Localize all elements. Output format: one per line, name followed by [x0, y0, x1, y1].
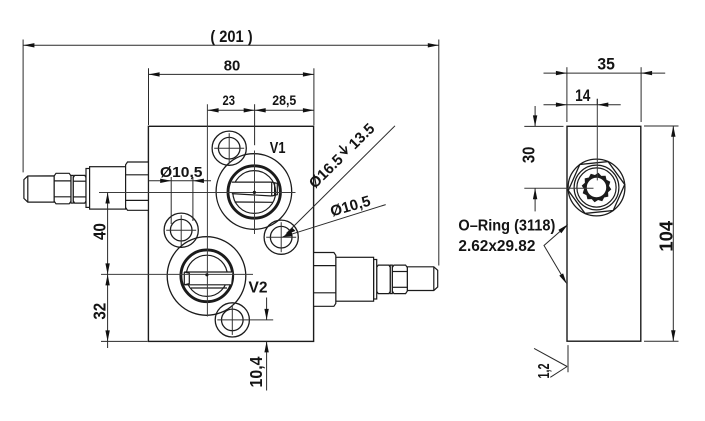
svg-text:O–Ring (3118): O–Ring (3118) — [458, 218, 555, 235]
dimension 10,4 — [266, 298, 268, 391]
chamfer mark 1,2 — [534, 345, 568, 377]
svg-text:40: 40 — [89, 223, 109, 240]
centerline side-view hole horizontal — [524, 187, 593, 189]
svg-text:Ø10,5: Ø10,5 — [160, 164, 203, 181]
side view block outline — [567, 126, 641, 341]
bolt hole bottom — [215, 303, 249, 337]
dimension 104 — [644, 126, 679, 341]
V1 cavity with plug — [216, 154, 292, 230]
dimension 14 — [544, 99, 621, 105]
svg-text:28,5: 28,5 — [272, 93, 296, 108]
label diameter 10,5 right with leader — [284, 205, 386, 237]
centerline side-view hole vertical — [596, 99, 598, 181]
svg-text:23: 23 — [223, 93, 236, 108]
bolt hole left — [164, 213, 198, 247]
V2 cavity with plug — [167, 237, 246, 316]
centerline V1 horizontal — [99, 192, 296, 194]
svg-text:30: 30 — [519, 146, 539, 163]
label diameter 16.5 depth 13.5 with leader — [287, 126, 396, 234]
dimension 30 — [524, 106, 563, 211]
svg-text:10,4: 10,4 — [246, 356, 266, 387]
svg-text:1,2: 1,2 — [536, 363, 553, 378]
svg-text:V1: V1 — [270, 140, 286, 157]
dimension (201) — [23, 40, 439, 266]
svg-text:80: 80 — [224, 58, 241, 75]
centerline V2 horizontal — [101, 273, 253, 275]
dimension diameter 10,5 left — [149, 177, 211, 224]
svg-text:35: 35 — [597, 56, 615, 74]
dimension 80 — [149, 68, 314, 125]
bolt hole top — [212, 131, 246, 165]
svg-text:104: 104 — [656, 221, 676, 252]
centerline V2 vertical / extension of 23 dim — [206, 104, 208, 316]
svg-text:( 201 ): ( 201 ) — [210, 27, 252, 46]
dimension 23 and 28,5 — [208, 104, 314, 145]
svg-text:V2: V2 — [249, 280, 268, 297]
svg-text:32: 32 — [89, 303, 109, 320]
side view cartridge hex end — [568, 159, 625, 216]
node V2 center — [205, 273, 208, 276]
bolt hole right (counterbored) — [264, 220, 298, 254]
relief valve cartridge left (side view) — [24, 162, 148, 210]
dimension 35 — [544, 67, 666, 122]
valve block front view outline — [148, 126, 313, 341]
node V1 center — [253, 191, 256, 194]
svg-text:14: 14 — [575, 87, 591, 105]
dimension 40 / 32 — [101, 193, 148, 349]
relief valve cartridge bottom-right (side view) — [314, 253, 438, 307]
centerline V1 vertical — [254, 151, 256, 235]
svg-text:2.62x29.82: 2.62x29.82 — [458, 238, 535, 255]
